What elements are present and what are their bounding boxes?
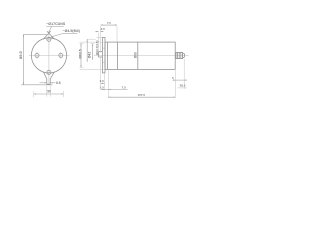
svg-text:28.5: 28.5 bbox=[180, 83, 186, 87]
svg-text:3.5: 3.5 bbox=[100, 79, 105, 83]
svg-text:Ø12.7(4.5): Ø12.7(4.5) bbox=[95, 41, 99, 55]
svg-text:Ø63.5: Ø63.5 bbox=[78, 49, 82, 59]
svg-text:−Ø4.5(M4): −Ø4.5(M4) bbox=[63, 29, 81, 33]
svg-text:−Ø17CUNS: −Ø17CUNS bbox=[46, 22, 66, 26]
svg-text:Ø42: Ø42 bbox=[88, 52, 92, 59]
svg-text:6.8: 6.8 bbox=[56, 81, 61, 85]
svg-text:Ø60: Ø60 bbox=[134, 52, 138, 58]
svg-text:7.5: 7.5 bbox=[122, 86, 127, 90]
svg-text:2.5: 2.5 bbox=[100, 86, 105, 90]
svg-text:7.5: 7.5 bbox=[107, 21, 111, 25]
svg-text:89.5: 89.5 bbox=[18, 50, 23, 59]
svg-text:157.5: 157.5 bbox=[138, 93, 146, 97]
svg-text:5: 5 bbox=[172, 76, 174, 80]
svg-text:50: 50 bbox=[47, 89, 51, 93]
svg-text:3.5: 3.5 bbox=[101, 27, 106, 31]
